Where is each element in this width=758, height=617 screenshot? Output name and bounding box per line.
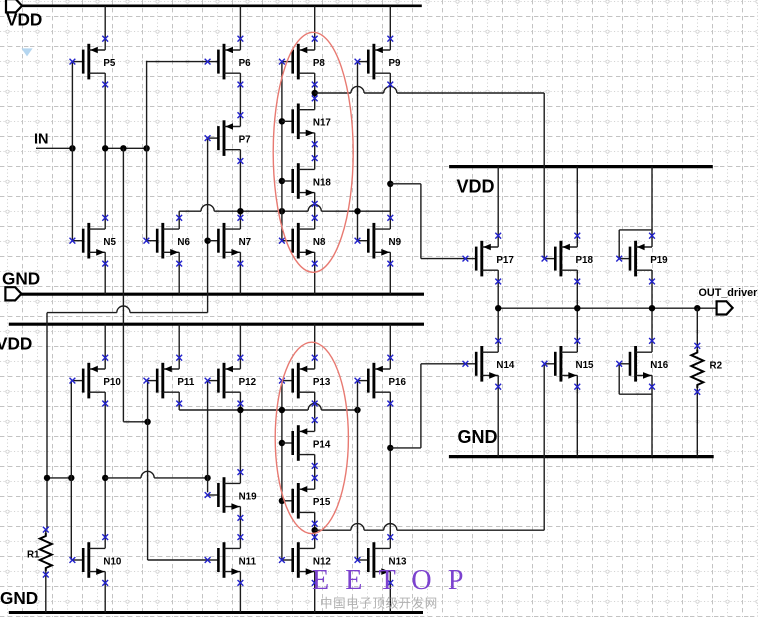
transistor N12 (282, 537, 332, 583)
wire N16 gate tie a (618, 364, 620, 394)
wire source to bottom GND (104, 583, 106, 612)
wire P9-N9 gates vertical (357, 62, 359, 241)
transistor N5 (72, 218, 116, 264)
wire P6-N6 gates vertical (146, 61, 148, 241)
svg-text:VDD: VDD (6, 10, 42, 30)
svg-text:P6: P6 (239, 58, 252, 69)
wire VDD2 drop (314, 324, 316, 358)
transistor P7 (208, 115, 252, 161)
wire P10 drain to N10 drain (104, 403, 106, 537)
wire P19 diode tie b (619, 229, 652, 231)
svg-text:P12: P12 (239, 377, 257, 388)
wire stage3 to N15 gate horizontal (315, 529, 545, 531)
wire OUT bus (498, 307, 716, 309)
svg-text:R1: R1 (27, 550, 40, 561)
resistor R1 (40, 533, 52, 571)
transistor N13 (358, 537, 408, 583)
transistor P17 (465, 236, 514, 282)
wire inv1 branch to lower gates (123, 421, 147, 423)
node bus410-P12 drain (237, 407, 243, 413)
node R1 tap left (44, 475, 50, 481)
node bus-P9 gate (354, 208, 360, 214)
transistor N15 (545, 341, 595, 387)
transistor P8 (282, 39, 326, 85)
node bus-N7 drain (237, 208, 243, 214)
node inv1 out at P6 gate wire (143, 145, 149, 151)
svg-text:IN: IN (34, 132, 49, 148)
node bus410-P16 gate (354, 407, 360, 413)
wire hop (384, 91, 397, 94)
svg-text:OUT_driver: OUT_driver (699, 287, 758, 299)
transistor P9 (358, 39, 402, 85)
wire P8 gate chain (281, 62, 283, 241)
wire VDD2 drop (178, 324, 180, 358)
svg-text:GND: GND (2, 269, 40, 289)
wire P11-N11 gates vertical (147, 381, 149, 560)
svg-text:P13: P13 (313, 377, 331, 388)
svg-text:N17: N17 (313, 118, 332, 129)
wire tap to N14 gate a (390, 447, 421, 449)
transistor P5 (72, 39, 116, 85)
wire P16-N13 gate vertical (357, 381, 359, 560)
transistor P13 (282, 358, 331, 404)
node P9 drain tap (387, 181, 393, 187)
svg-text:EETOP: EETOP (312, 565, 480, 596)
highlight ellipse upper (273, 32, 353, 272)
node N17 gate (279, 118, 285, 124)
svg-text:P9: P9 (389, 58, 402, 69)
node P15 drain node (312, 527, 318, 533)
svg-text:N11: N11 (239, 556, 257, 567)
wire P7 drain to N7 drain (239, 161, 241, 219)
wire VDD drop (104, 6, 106, 39)
wire VDD drop (389, 6, 391, 39)
wire tap to P17 gate a (390, 183, 421, 185)
svg-text:P11: P11 (177, 377, 194, 388)
wire P14 to P15 stack (314, 463, 316, 479)
transistor P11 (146, 358, 194, 404)
highlight ellipse lower (275, 342, 348, 533)
wire P15 to N12 drain (314, 524, 316, 538)
transistor N7 (208, 218, 252, 264)
node P8 drain (312, 90, 318, 96)
wire P10-N10 gates vertical (70, 381, 72, 560)
node OUT-P19 (649, 305, 655, 311)
wire N16 gate tie b (619, 393, 652, 395)
wire N15 source to GND (576, 386, 578, 456)
svg-text:N18: N18 (313, 177, 332, 188)
wire hop (351, 91, 364, 94)
wire IN port (36, 147, 72, 149)
node lower gates junction (144, 419, 150, 425)
wire N17-N18 stack (314, 142, 316, 159)
transistor P10 (72, 358, 121, 404)
wire source to GND (104, 263, 106, 294)
wire source to bottom GND (389, 583, 391, 612)
wire N6 drain drop (178, 211, 180, 218)
svg-text:N15: N15 (576, 360, 595, 371)
node P15 gate (279, 498, 285, 504)
transistor P18 (545, 236, 594, 282)
wire hop (308, 210, 321, 213)
ground rail GND right (449, 455, 714, 458)
wire VDD right drop (576, 167, 578, 237)
wire P13 to P14 stack (314, 403, 316, 418)
svg-text:P16: P16 (389, 377, 407, 388)
svg-text:N5: N5 (103, 237, 116, 248)
power rail VDD right (449, 165, 713, 168)
svg-text:P8: P8 (313, 58, 326, 69)
transistor N16 (619, 341, 669, 387)
node OUT-P17 (495, 305, 501, 311)
transistor P6 (208, 39, 252, 85)
wire source to bottom GND (239, 583, 241, 612)
transistor P15 (282, 478, 331, 524)
wire inv1 branch down (122, 148, 124, 422)
wire source to GND (314, 263, 316, 294)
wire R2 bottom (696, 392, 698, 457)
transistor N6 (146, 218, 190, 264)
wire source to bottom GND (314, 583, 316, 612)
wire N14 source to GND (497, 386, 499, 456)
wire drain bus y410 (179, 409, 357, 411)
svg-text:中国电子顶级开发网: 中国电子顶级开发网 (320, 596, 438, 611)
wire hop (384, 529, 397, 532)
transistor N18 (282, 158, 332, 204)
wire VDD drop (239, 6, 241, 39)
transistor N14 (465, 341, 515, 387)
wire VDD drop (314, 6, 316, 39)
svg-text:P17: P17 (496, 255, 514, 266)
ground rail GND middle (21, 293, 424, 296)
node R1 tap right (68, 475, 74, 481)
transistor P14 (282, 420, 331, 466)
wire tap to P17 gate c (421, 258, 466, 260)
transistor N9 (358, 218, 402, 264)
wire N16 source to GND (651, 386, 653, 456)
svg-text:VDD: VDD (0, 333, 32, 353)
svg-text:R2: R2 (710, 361, 723, 372)
wire P11 drain drop (178, 403, 180, 410)
svg-text:P14: P14 (313, 439, 331, 450)
wire IN gates vertical P5-N5 (71, 62, 73, 241)
wire P5 drain to N5 drain (104, 85, 106, 219)
ground rail GND bottom (9, 611, 423, 614)
node coupling to P12-N19 gates (204, 475, 210, 481)
node OUT-P18 (574, 305, 580, 311)
svg-text:P18: P18 (576, 255, 594, 266)
wire bias to P18 gate (543, 93, 545, 259)
svg-text:P7: P7 (239, 135, 252, 146)
wire bias node y93 (315, 92, 545, 94)
wire P19 diode tie a (618, 230, 620, 259)
svg-text:P15: P15 (313, 497, 331, 508)
transistor P12 (208, 358, 257, 404)
svg-text:VDD: VDD (457, 176, 495, 196)
svg-text:GND: GND (458, 427, 498, 447)
node P10 drain node (102, 475, 108, 481)
wire source to GND (389, 263, 391, 294)
port OUT_driver (717, 301, 733, 314)
wire hop (117, 311, 130, 314)
pin X markers (43, 36, 700, 586)
power rail VDD lower-left (9, 323, 424, 326)
svg-text:P10: P10 (103, 377, 121, 388)
svg-text:N19: N19 (239, 491, 258, 502)
transistor P16 (358, 358, 407, 404)
wire P19 drain to N16 drain (651, 281, 653, 341)
wire P13 gate chain lower (281, 381, 283, 560)
wire VDD right drop (497, 167, 499, 237)
wire N19 to N11 drain (239, 518, 241, 538)
wire stage3 to N15 gate vertical (543, 364, 545, 530)
wire P6 gate horizontal (147, 61, 208, 63)
node bus-gate chain (279, 208, 285, 214)
svg-text:P5: P5 (103, 58, 116, 69)
node inv1 out at P5 drain (102, 145, 108, 151)
svg-text:N14: N14 (496, 360, 515, 371)
transistor N17 (282, 98, 332, 144)
wire to N11 gate (148, 559, 208, 561)
node IN junction (69, 145, 75, 151)
node bus410-gate chain (279, 407, 285, 413)
wire P12-N19 gate vertical (207, 381, 209, 493)
wire drain bus y211 (179, 210, 390, 212)
wire VDD2 drop (239, 324, 241, 358)
wire stage2 coupling (105, 477, 207, 479)
svg-text:N16: N16 (650, 360, 669, 371)
wire hop (308, 408, 321, 411)
node P14 gate (279, 440, 285, 446)
wire tap to N14 gate c (421, 363, 466, 365)
wire VDD2 drop (104, 324, 106, 358)
wire P18 drain to N15 drain (576, 281, 578, 341)
power rail VDD top (21, 4, 422, 7)
svg-text:N9: N9 (389, 237, 402, 248)
wire P16 drain vertical (389, 403, 391, 537)
node N18 gate (279, 178, 285, 184)
port VDD top (6, 0, 22, 12)
transistor N8 (282, 218, 326, 264)
port GND middle (5, 287, 21, 300)
wire P8 drain to N17 drain (314, 85, 316, 99)
svg-text:P19: P19 (650, 255, 668, 266)
node N7 gate (204, 238, 210, 244)
wire VDD2 drop (389, 324, 391, 358)
wire P7-N7 gate chain (207, 138, 209, 313)
wire tap to P17 gate b (420, 184, 422, 259)
selection cursor marker (21, 48, 32, 56)
wire hop (351, 529, 364, 532)
wire P9 drain vertical (389, 85, 391, 219)
wire hop (141, 476, 154, 479)
wire P17 drain to N14 drain (497, 281, 499, 341)
wire P6 drain to P7 source (239, 85, 241, 116)
node inv1 out branch (120, 145, 126, 151)
node OUT-R2 (694, 305, 700, 311)
transistor P19 (619, 236, 668, 282)
transistor N11 (208, 537, 257, 583)
svg-text:N6: N6 (177, 237, 190, 248)
wire N18-N8 stack (314, 203, 316, 218)
wire inverter1 output (105, 147, 146, 149)
wire source to GND (239, 263, 241, 294)
wire tap to N14 gate b (420, 364, 422, 448)
transistor N19 (208, 472, 258, 518)
wire R1 net vertical (46, 313, 48, 530)
wire P12 drain to N19 (239, 403, 241, 472)
transistor N10 (72, 537, 122, 583)
svg-text:GND: GND (0, 588, 38, 608)
wire VDD right drop (651, 167, 653, 237)
svg-text:N8: N8 (313, 237, 326, 248)
wire hop (201, 210, 214, 213)
wire gate chain to R1 horizontal (47, 312, 208, 314)
wire R1 tap horizontal (47, 477, 71, 479)
node P16 drain tap (387, 445, 393, 451)
wire source to GND (178, 263, 180, 294)
wire R2 top (696, 308, 698, 346)
svg-text:N7: N7 (239, 237, 252, 248)
svg-text:N10: N10 (103, 556, 122, 567)
resistor R2 (691, 350, 703, 388)
